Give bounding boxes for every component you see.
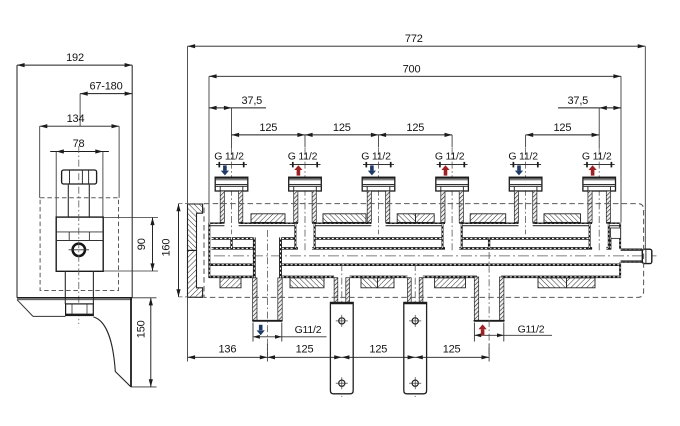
svg-text:125: 125 xyxy=(333,122,351,134)
pipe B centerline xyxy=(488,252,490,356)
flow arrow up (red) outlet 6 xyxy=(589,165,597,175)
svg-text:125: 125 xyxy=(406,122,424,134)
pipe A centerline xyxy=(266,230,268,356)
thread callout ticks outlet 5 xyxy=(510,162,541,168)
strap 2 top edge xyxy=(404,302,427,304)
lock nut under bracket (side view) xyxy=(66,304,94,316)
dimension 67-180 (adjustable range) xyxy=(80,80,132,126)
right end notch xyxy=(611,228,621,238)
body left end wall xyxy=(208,223,210,278)
threaded pipe outlet 6 xyxy=(588,191,611,222)
thread callout ticks outlet 2 xyxy=(290,162,321,168)
side view frame right edge xyxy=(131,65,133,298)
bottom insulation block 4 xyxy=(378,278,395,288)
dimension 192 (bracket width) xyxy=(17,52,132,67)
svg-text:125: 125 xyxy=(443,344,461,356)
bottom outlet pipe A threaded end xyxy=(253,278,283,321)
inner tube right end wall xyxy=(610,237,612,249)
top outlet 2 centerline xyxy=(304,148,306,250)
union nut (side view, top) xyxy=(62,170,97,184)
dimension 700 (manifold length) xyxy=(209,63,621,222)
mounting strap 1 xyxy=(330,302,353,393)
dimension 772 (overall length) xyxy=(188,33,646,249)
svg-text:G 11/2: G 11/2 xyxy=(435,151,465,163)
front sectional view group xyxy=(160,33,656,397)
svg-text:125: 125 xyxy=(296,344,314,356)
strap 1 threaded stud xyxy=(334,278,349,303)
upper pipe (side view) xyxy=(68,184,89,217)
manifold body (side view square) xyxy=(56,217,103,271)
inner tube upper wall xyxy=(212,237,611,240)
svg-text:134: 134 xyxy=(67,113,85,125)
dimension 125 (outlets 5-6) xyxy=(526,122,600,148)
bottom insulation block 6 xyxy=(538,278,567,288)
threaded pipe outlet 2 xyxy=(294,191,317,222)
top insulation block 3 xyxy=(397,214,415,223)
thread callout ticks outlet 1 xyxy=(216,162,247,168)
return drop tubes (outlets 2,4,6) xyxy=(295,224,608,249)
thread callout ticks outlet 3 xyxy=(363,162,394,168)
top insulation block 2 xyxy=(323,214,366,223)
side view frame left edge xyxy=(16,65,18,298)
flow arrow down (blue) outlet 1 xyxy=(221,165,229,175)
threaded pipe outlet 3 xyxy=(367,191,390,222)
svg-text:G 11/2: G 11/2 xyxy=(361,151,391,163)
union nut outlet 5 xyxy=(509,177,542,191)
flow arrow down (blue) outlet A xyxy=(257,325,265,335)
union nut outlet 1 xyxy=(215,177,248,191)
dimension 150 (bracket height) xyxy=(131,298,157,387)
mounting strap 2 xyxy=(404,302,427,393)
svg-text:37,5: 37,5 xyxy=(567,95,588,107)
svg-text:125: 125 xyxy=(554,122,572,134)
svg-text:136: 136 xyxy=(219,344,237,356)
top insulation block 5 xyxy=(470,214,506,223)
svg-text:G 11/2: G 11/2 xyxy=(214,151,244,163)
bottom shell rail xyxy=(209,276,621,279)
top outlet 1 centerline xyxy=(231,148,233,234)
flow arrow up (red) outlet 4 xyxy=(441,165,449,175)
bottom outlet pipe B threaded end xyxy=(474,277,504,321)
thread callout ticks outlet 6 xyxy=(584,162,615,168)
bottom chamber axis centerline xyxy=(214,255,657,257)
svg-text:G11/2: G11/2 xyxy=(518,323,545,335)
insulation box outline (dashed) xyxy=(204,204,644,298)
inner tube baffle above outlet B xyxy=(488,237,490,249)
svg-text:67-180: 67-180 xyxy=(89,80,122,92)
mounting wall lower section (hatched) xyxy=(188,250,203,297)
svg-text:G11/2: G11/2 xyxy=(295,324,322,336)
bottom insulation block 5 xyxy=(435,278,466,288)
manifold body top wall xyxy=(209,223,621,226)
svg-text:125: 125 xyxy=(369,344,387,356)
svg-text:G 11/2: G 11/2 xyxy=(582,151,612,163)
union nut outlet 6 xyxy=(583,177,616,191)
threaded pipe outlet 1 xyxy=(220,191,243,222)
top outlet 6 centerline xyxy=(598,148,600,250)
body internal seam lines xyxy=(56,232,103,241)
flow arrow down (blue) outlet 5 xyxy=(515,165,523,175)
dimension 90 (body height) xyxy=(103,218,158,272)
mounting wall upper section (hatched) xyxy=(188,204,203,250)
strap 2 centerline xyxy=(414,264,416,397)
svg-text:150: 150 xyxy=(135,320,147,338)
strap 1 hole at y320 xyxy=(336,315,348,327)
vertical centerline (side view) xyxy=(78,146,80,324)
bottom insulation block 1 xyxy=(220,278,241,288)
top outlet 5 centerline xyxy=(525,148,527,234)
dimension 134 (insulation width) xyxy=(40,113,119,198)
svg-text:160: 160 xyxy=(160,239,172,257)
top insulation block 4 xyxy=(416,214,435,223)
callout G11/2 bottom outlet A xyxy=(253,323,327,342)
flow arrow up (red) outlet B xyxy=(479,324,487,335)
body right end wall xyxy=(619,223,621,278)
union nut outlet 2 xyxy=(289,177,322,191)
inner tube baffle under outlet 1 xyxy=(230,237,232,249)
top outlet 3 centerline xyxy=(378,148,380,234)
svg-text:192: 192 xyxy=(66,52,84,64)
dimension 160 (height) xyxy=(160,204,196,297)
side outlet stub (right end) xyxy=(621,249,643,262)
bottom dimension chain 136/125/125/125 xyxy=(188,297,490,361)
inner tube lower wall xyxy=(212,247,611,250)
flow arrow up (red) outlet 2 xyxy=(294,165,302,175)
dimension 37,5 left xyxy=(209,95,266,148)
left side view group xyxy=(17,52,158,387)
callout G11/2 bottom outlet B xyxy=(474,323,552,342)
top outlet 4 centerline xyxy=(451,148,453,250)
flow arrow down (blue) outlet 3 xyxy=(368,165,376,175)
union nut outlet 4 xyxy=(436,177,469,191)
bottom outlet pipe A (through body) xyxy=(254,237,280,278)
top insulation block 6 xyxy=(544,214,581,223)
bottom insulation block 7 xyxy=(567,278,596,288)
strap 2 threaded stud xyxy=(408,278,423,303)
stub end cap nut xyxy=(642,249,652,263)
strap 1 top edge xyxy=(330,302,353,304)
dimension chain 125 x3 (outlets 1-4) xyxy=(232,122,453,148)
threaded pipe outlet 5 xyxy=(514,191,537,222)
svg-text:125: 125 xyxy=(259,122,277,134)
insulation outline (dashed, side view) xyxy=(40,198,118,291)
svg-text:G 11/2: G 11/2 xyxy=(288,151,318,163)
dimension 78 (body width) xyxy=(50,138,109,217)
strap 1 hole at y383 xyxy=(336,377,348,389)
svg-text:G 11/2: G 11/2 xyxy=(508,151,538,163)
svg-text:772: 772 xyxy=(405,33,423,45)
strap 1 centerline xyxy=(341,264,343,397)
strap 2 hole at y320 xyxy=(409,315,421,327)
svg-text:37,5: 37,5 xyxy=(241,95,262,107)
bottom insulation block 3 xyxy=(361,278,378,288)
threaded pipe outlet 4 xyxy=(441,191,464,222)
svg-text:90: 90 xyxy=(136,238,148,250)
bottom insulation block 2 xyxy=(290,278,324,288)
svg-text:700: 700 xyxy=(403,63,421,75)
lower pipe (side view) xyxy=(65,271,93,304)
manifold body bottom wall xyxy=(209,263,621,266)
union nut outlet 3 xyxy=(362,177,395,191)
strap 2 hole at y383 xyxy=(409,377,421,389)
thread callout ticks outlet 4 xyxy=(437,162,468,168)
top insulation block 1 xyxy=(251,214,285,223)
wall bracket (side view) xyxy=(17,298,132,387)
pipe bore circle (side view) xyxy=(69,244,89,256)
dimension 37,5 right xyxy=(558,95,621,148)
